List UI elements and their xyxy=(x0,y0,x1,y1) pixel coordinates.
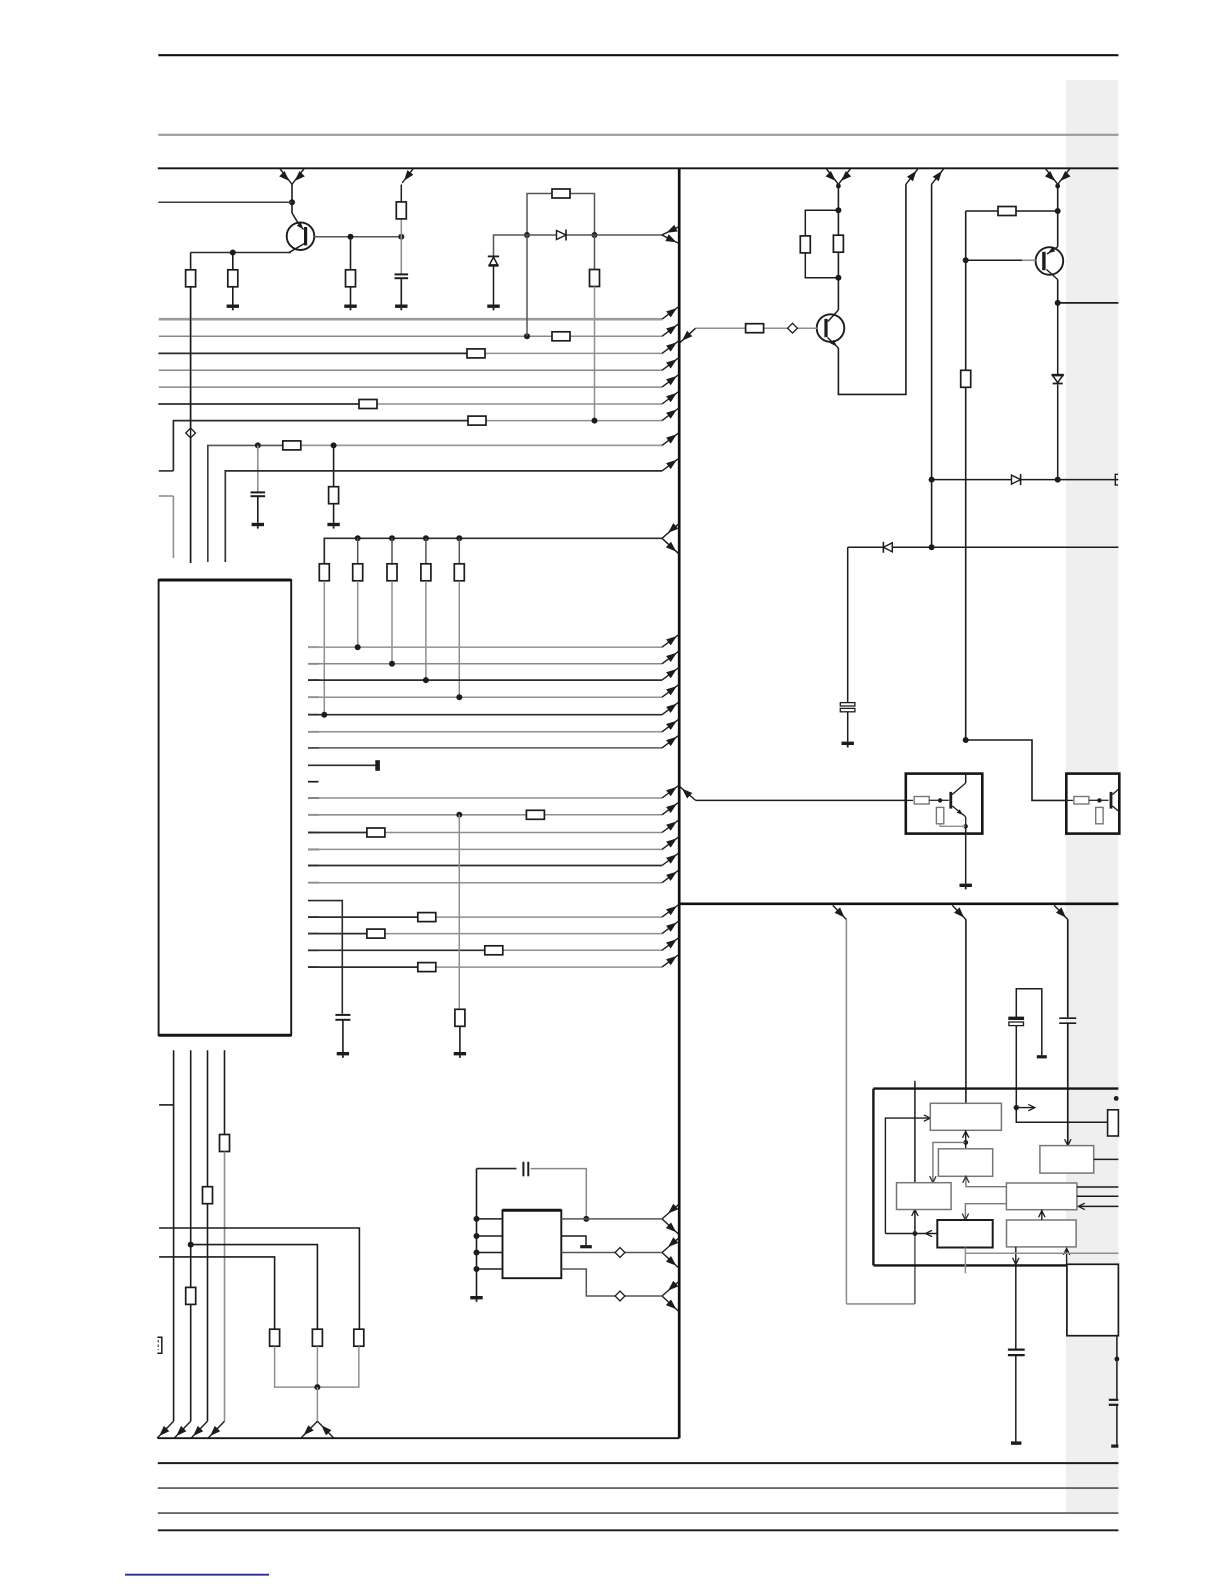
diamond on pin4 net xyxy=(615,1291,625,1301)
bank resistor tails xyxy=(323,581,325,715)
rail dot x=392 xyxy=(389,535,395,541)
bus line y=680 xyxy=(308,679,319,681)
rail dot x=459.3 xyxy=(456,535,462,541)
wire Y to node xyxy=(291,184,293,213)
Q2 collector resistor pair xyxy=(837,184,839,310)
wire from left edge y=1228 xyxy=(159,1228,359,1329)
node dot pin1/cap xyxy=(583,1216,589,1222)
bank resistor 2 xyxy=(353,564,363,581)
power connector arrows above Q2 pair xyxy=(826,168,838,184)
ground C4 xyxy=(842,742,854,745)
arrow A to bottom border xyxy=(157,1421,174,1438)
resistor R5 top of diode loop xyxy=(527,194,595,236)
import arrow below divider x=1068 xyxy=(1054,905,1068,919)
bus line y=714.7 xyxy=(308,714,319,716)
resistor on bus 404 xyxy=(359,400,377,409)
resistor on bus 420 xyxy=(468,416,486,425)
gray vertical from 814 dot xyxy=(458,815,460,1010)
ground R(814) xyxy=(454,1052,466,1055)
header gray rule xyxy=(158,134,1118,136)
resistor R9 base xyxy=(746,324,764,333)
resistor R2 xyxy=(232,253,234,271)
wire to zener xyxy=(494,235,528,256)
stub line y=765.3 with terminator xyxy=(308,764,376,766)
bus line y=664 xyxy=(308,663,319,665)
ground C3 xyxy=(337,1052,349,1055)
tail to bottom Y arrows xyxy=(316,1387,318,1421)
transistor module box Q5 xyxy=(906,774,983,834)
Q1 collector wire right xyxy=(314,236,401,238)
resistor below dot 333 xyxy=(333,445,335,486)
merge node dot xyxy=(314,1384,320,1390)
node dot B xyxy=(188,1242,194,1248)
footer link line xyxy=(125,1574,269,1576)
Q3 emitter lead top xyxy=(1047,247,1058,254)
bus line y=404 xyxy=(158,403,359,405)
electrolytic cap C5 loop xyxy=(1016,989,1042,1055)
node dot collector/C1 xyxy=(398,234,404,240)
dot near band top right xyxy=(1114,1096,1119,1101)
bank resistor 1 xyxy=(319,564,329,581)
resistor on bus 445 xyxy=(283,441,301,450)
Q2 emitter lead xyxy=(828,338,839,349)
footer rule 1 xyxy=(158,1462,1119,1464)
capacitor C4 xyxy=(840,703,855,706)
op-amp U2 box xyxy=(503,1210,562,1278)
wire from dot B y=1244.6 xyxy=(191,1245,318,1330)
bus line y=319 xyxy=(159,318,662,321)
IC bottom pin wire B (x=190.7) xyxy=(190,1050,192,1287)
capacitor C2 xyxy=(257,445,259,492)
long vertical x=931.6 xyxy=(931,184,933,547)
b2 right line xyxy=(1094,1158,1119,1160)
resistor on bus 353 xyxy=(467,349,485,358)
rail dot x=425.9 xyxy=(423,535,429,541)
transistor Q5 bars xyxy=(949,792,952,809)
gray L to block vertical xyxy=(846,1303,915,1305)
bus line y=470.9 xyxy=(225,471,662,562)
IC bottom pin wire D (x=224.5) xyxy=(224,1050,226,1134)
node dot base/R2 xyxy=(230,250,236,256)
clipped connector at line 479 end xyxy=(1115,474,1118,485)
node dot Q5 base xyxy=(938,798,942,802)
corner wire y=900.6 to C3 xyxy=(308,901,342,1014)
bank merge bracket xyxy=(275,1346,359,1387)
resistor on bus 336 xyxy=(552,332,570,341)
rail dot x=357.7 xyxy=(355,535,361,541)
node dot base Q3 xyxy=(963,257,969,263)
top connector arrow x=906 xyxy=(906,168,918,184)
bank resistor 4 xyxy=(421,564,431,581)
bus line y=882.7 xyxy=(308,882,319,884)
top connector arrow for R4 xyxy=(402,168,413,183)
resistor on wire B xyxy=(186,1287,196,1304)
border connector pair at y=235 xyxy=(662,227,679,235)
diamond on pin3 net xyxy=(615,1248,625,1258)
resistor R10 xyxy=(998,207,1016,216)
footer rule 3 xyxy=(158,1512,1119,1514)
supply rail to Q3: corner x=965.7 xyxy=(966,210,998,212)
bus line y=353 xyxy=(158,352,467,354)
node dot 445/R xyxy=(331,442,337,448)
R6 vertical in loop xyxy=(594,235,596,270)
left section bottom border xyxy=(158,1437,679,1439)
ground U2 rail xyxy=(470,1296,482,1299)
vertical through box x=914.9 xyxy=(914,1081,916,1183)
IC U1 main block xyxy=(159,580,292,1035)
import connector y=800.4 xyxy=(680,787,696,801)
zener diode D1 xyxy=(488,255,499,257)
Q5 base resistor xyxy=(906,799,913,801)
bus line y=832.5 xyxy=(308,832,319,834)
bank resistor 3 xyxy=(387,564,397,581)
diode D4 on 479 line xyxy=(1012,475,1021,484)
node dot collector/R3 xyxy=(348,234,354,240)
import connector at y=328 xyxy=(680,328,696,343)
bus line y=731.8 xyxy=(308,731,319,733)
wire diode row xyxy=(527,234,595,236)
capacitor C1 xyxy=(400,219,402,274)
block b2 xyxy=(1040,1146,1094,1174)
gray drop wire x=846 xyxy=(845,920,847,1304)
node dot R7/R8 bottom xyxy=(835,275,841,281)
node dot loop right xyxy=(592,232,598,238)
gray line y=1253.3 xyxy=(964,1248,966,1274)
wire 547 corner down to C4 xyxy=(847,547,849,703)
b6 to b3 arrow xyxy=(1041,1210,1043,1220)
white module box bottom right xyxy=(1067,1264,1119,1335)
bus line y=747.9 xyxy=(308,747,319,749)
Q5 base-emitter resistor xyxy=(936,807,943,823)
transistor Q1 xyxy=(287,222,315,250)
drop wire x=966 to block xyxy=(965,920,967,1104)
bus line y=336 xyxy=(159,335,552,337)
resistor R1 xyxy=(190,253,192,271)
b6 bottom entry arrow xyxy=(1066,1250,1068,1265)
U2 left pin dot y=1218.9 xyxy=(474,1216,480,1222)
resistor R7 xyxy=(800,236,810,253)
bus line y=445.4 (RC net) xyxy=(208,445,283,562)
node dot 547/931 xyxy=(929,544,935,550)
output line y=302.9 xyxy=(1058,302,1119,304)
ground C1 xyxy=(395,305,407,308)
Q3 collector lead bottom xyxy=(1047,270,1058,280)
U2 left pin dot y=1269 xyxy=(474,1266,480,1272)
ground C2 xyxy=(252,523,264,526)
block b6 xyxy=(1007,1220,1077,1247)
node dot 479/zener xyxy=(1055,477,1061,483)
U2 pin4 net with diamond xyxy=(561,1269,662,1296)
node dot 479/931 xyxy=(929,477,935,483)
junction dot on 336 xyxy=(524,333,530,339)
b1 to b2s wire xyxy=(965,1142,967,1148)
zener D3 xyxy=(1057,303,1059,374)
footer rule 4 xyxy=(158,1529,1119,1531)
node dot Q3 out xyxy=(1055,300,1061,306)
ground Q5 xyxy=(960,884,972,887)
line y=479.6 xyxy=(932,479,1119,481)
U2 left pin dot y=1252.5 xyxy=(474,1250,480,1256)
bus line y=933.6 xyxy=(308,933,319,935)
wire arrow to R4 xyxy=(400,185,402,202)
junction dot below Y 1058 xyxy=(1055,184,1060,189)
drop wire x=1068 xyxy=(1067,920,1069,1018)
bus line y=420.6 xyxy=(173,421,468,471)
wire to box Q5 xyxy=(696,799,906,801)
top rule xyxy=(158,54,1118,56)
b3 to b2s path xyxy=(966,1176,1007,1186)
bottom cap branch x=1117 xyxy=(1116,1336,1118,1399)
bus line y=798 xyxy=(308,797,319,799)
left edge connector bracket xyxy=(157,1337,161,1353)
resistor below 814 net xyxy=(455,1009,465,1026)
power connector arrows above Q1 xyxy=(280,168,292,184)
resistor R3 xyxy=(350,237,352,270)
Q1 base wire to left xyxy=(191,252,291,254)
stub left edge y=470.9 xyxy=(159,470,174,472)
node dot 445/C2 xyxy=(255,442,261,448)
node dot R10/Q3 xyxy=(1055,208,1061,214)
bus line y=917.1 xyxy=(308,916,319,918)
Q5 collector through box top xyxy=(965,774,967,783)
top connector arrow x=931.6 xyxy=(932,168,944,184)
U2 pin2 ground xyxy=(561,1236,586,1245)
IC bottom pin wire C (x=207.5) xyxy=(207,1050,209,1187)
ground D1 xyxy=(487,305,499,308)
Q2 base wire xyxy=(696,327,746,329)
node dot Z-wire xyxy=(963,737,969,743)
bus line y=967.1 xyxy=(308,966,319,968)
import arrow below divider x=966 xyxy=(952,905,966,919)
bus line y=697 xyxy=(308,696,319,698)
bank resistor 5 xyxy=(454,564,464,581)
node dot Q1 emitter net xyxy=(289,199,295,205)
wire to left edge y=202 xyxy=(158,201,292,203)
page highlight band xyxy=(1066,80,1118,1513)
line y=547.3 xyxy=(848,546,1119,548)
polarity diamond on R1 net xyxy=(186,428,196,438)
block diagram outer box xyxy=(873,1089,1118,1266)
node dot Q4 base xyxy=(1097,798,1101,802)
power connector arrows above Q3 xyxy=(1045,168,1057,184)
bus line y=849.4 xyxy=(308,848,319,850)
bottom cap branch x=1016 xyxy=(1015,1265,1017,1349)
Q2 collector lead xyxy=(828,310,839,322)
resistor R4 xyxy=(396,202,406,219)
junction dot below Y 838 xyxy=(836,184,841,189)
bus line y=387 xyxy=(159,386,662,388)
vertical x=965.7 xyxy=(965,211,967,370)
bus line y=647 xyxy=(308,646,319,648)
Q1 base lead xyxy=(289,244,305,253)
footer rule 2 xyxy=(158,1487,1119,1489)
node dot loop left xyxy=(524,232,530,238)
capacitor C6 (ceramic) xyxy=(1059,1017,1076,1019)
feedback cap loop above U2 xyxy=(477,1168,517,1170)
capacitor C3 xyxy=(335,1014,350,1016)
import arrow below divider x=846 xyxy=(833,905,847,919)
wire loop-left vertical to 336 xyxy=(526,235,528,336)
diode D5 on 547 line xyxy=(883,543,892,552)
b1 bottom arrow xyxy=(965,1130,967,1142)
ground R xyxy=(327,523,339,526)
Q1 emitter lead xyxy=(292,213,298,223)
ground R3 xyxy=(344,305,356,308)
node dot R7/R8 top xyxy=(835,207,841,213)
U2 pin3 net with diamond xyxy=(561,1252,662,1254)
Q5 emitter to ground xyxy=(965,826,967,883)
block b1 xyxy=(930,1103,1001,1130)
gray branch to b4 xyxy=(933,1142,966,1182)
node dot Q5 emitter xyxy=(964,824,968,828)
arrow from cap dot xyxy=(1014,1105,1019,1110)
R1 lower wire through diamond down to IC xyxy=(190,287,192,563)
resistor bank rail y=538.3 xyxy=(324,538,662,564)
wire loop to border arrows xyxy=(595,234,662,236)
bus line y=814.8 xyxy=(308,814,319,816)
C5 right branch terminator xyxy=(1037,1055,1047,1058)
b6 bottom exit arrow xyxy=(1015,1247,1017,1266)
clipped box top right xyxy=(1108,1110,1119,1136)
transistor module box Q4 (clipped) xyxy=(1066,774,1119,834)
schematic top border xyxy=(158,167,1119,169)
ground R2 xyxy=(227,305,239,308)
block b5 xyxy=(937,1220,992,1248)
block b2s xyxy=(938,1149,992,1177)
resistor R8 xyxy=(833,235,843,252)
Q3 base wire gray xyxy=(966,259,1036,261)
section divider vertical xyxy=(678,168,681,1438)
resistor R11 xyxy=(961,370,971,387)
Q2 emitter loop down-right xyxy=(838,184,906,394)
unconnected pin stub y=781.7 xyxy=(308,781,319,783)
resistor on wire D xyxy=(220,1135,230,1152)
wire from left edge y=1256.9 xyxy=(159,1257,275,1329)
bus line y=865.5 xyxy=(308,865,319,867)
b3 right lines xyxy=(1077,1186,1119,1188)
dot and feedback wire xyxy=(913,1231,918,1236)
bus line y=950.3 xyxy=(308,949,319,951)
IC bottom pin wire A (x=173.6) xyxy=(159,1104,174,1106)
U2 left rail xyxy=(476,1169,478,1296)
bottom resistor bank 3x xyxy=(270,1329,280,1346)
U2 left pin dot y=1236 xyxy=(474,1233,480,1239)
b3 to b5 path xyxy=(965,1204,1006,1220)
transistor Q3 xyxy=(1057,184,1059,247)
diode D2 xyxy=(557,231,567,240)
diamond on base net xyxy=(788,323,798,333)
block b3 xyxy=(1006,1183,1077,1210)
resistor on wire C xyxy=(203,1187,213,1204)
transistor Q2 xyxy=(817,314,845,342)
block b4 xyxy=(897,1183,952,1210)
node dot 420/R6 xyxy=(592,418,598,424)
IC top pin stubs xyxy=(172,496,174,558)
right section divider horizontal xyxy=(679,902,1118,905)
wire from cap dot to clipped box xyxy=(1016,1108,1107,1123)
bus line y=370 xyxy=(159,369,662,371)
bottom Y connector pair xyxy=(301,1421,318,1438)
